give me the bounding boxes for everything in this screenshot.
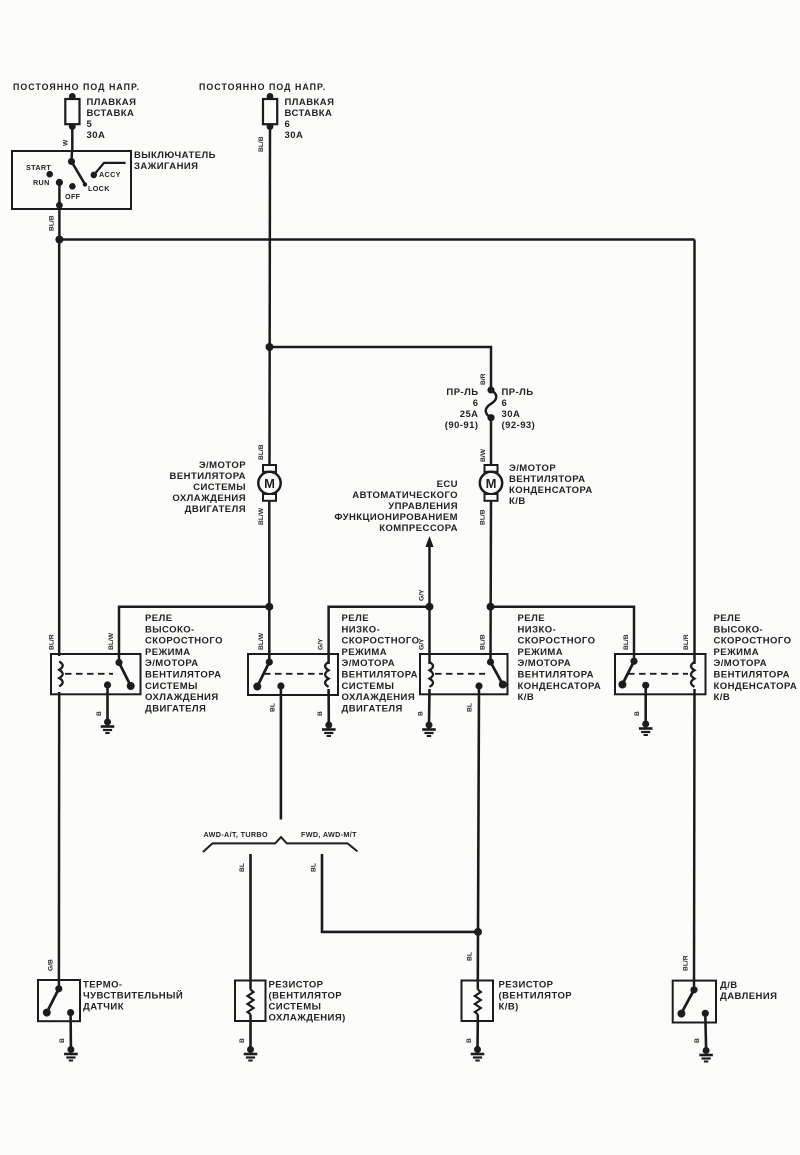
wire label BL/B relay R4: [623, 634, 630, 650]
svg-text:КОНДЕНСАТОРА: КОНДЕНСАТОРА: [509, 485, 593, 496]
relay R2 contact switch: [253, 659, 284, 691]
svg-text:BL/W: BL/W: [108, 632, 115, 650]
svg-text:РЕЖИМА: РЕЖИМА: [342, 647, 388, 658]
svg-text:РЕЖИМА: РЕЖИМА: [145, 647, 191, 658]
svg-text:ДАТЧИК: ДАТЧИК: [83, 1002, 124, 1013]
wire B: relay R3 coil to ground: [428, 689, 431, 724]
fusible link ПР-ЛЬ (squiggle): [486, 386, 497, 421]
svg-text:РЕЗИСТОР: РЕЗИСТОР: [499, 980, 554, 991]
relay R3 coil: [430, 662, 434, 687]
relay R1 coil: [59, 662, 62, 687]
label relay R3: [518, 613, 602, 703]
label fusible link right (92-93): [502, 387, 536, 431]
svg-text:ДВИГАТЕЛЯ: ДВИГАТЕЛЯ: [185, 504, 246, 515]
wire label B/R: [480, 373, 487, 385]
wire B: relay R2 coil to ground: [327, 689, 330, 724]
svg-text:BL/B: BL/B: [258, 444, 265, 460]
svg-text:BL: BL: [270, 703, 277, 712]
svg-text:ВСТАВКА: ВСТАВКА: [285, 108, 333, 119]
svg-text:К/В: К/В: [714, 692, 731, 703]
svg-text:30A: 30A: [87, 130, 106, 141]
svg-text:ПЛАВКАЯ: ПЛАВКАЯ: [87, 97, 137, 108]
svg-text:BL/R: BL/R: [683, 634, 690, 650]
label ECU: [334, 479, 458, 534]
svg-text:W: W: [63, 139, 70, 146]
relay R3 box (condenser fan low-speed relay): [420, 654, 508, 694]
svg-text:ЗАЖИГАНИЯ: ЗАЖИГАНИЯ: [134, 161, 198, 172]
wire B: resistor 1 to ground: [249, 1021, 252, 1048]
wire label B thermo: [59, 1038, 66, 1043]
svg-text:5: 5: [87, 119, 93, 130]
wire: branch to condenser fusible link: [270, 347, 492, 390]
label resistor 2: [499, 980, 573, 1013]
svg-text:ВЫСОКО-: ВЫСОКО-: [714, 624, 764, 635]
svg-text:G/Y: G/Y: [318, 638, 325, 650]
svg-text:РЕЗИСТОР: РЕЗИСТОР: [269, 980, 324, 991]
wire label B relay R4: [634, 711, 641, 716]
svg-text:Э/МОТОРА: Э/МОТОРА: [342, 658, 396, 669]
wire: left bus BL/R down to relay R1 coil: [58, 240, 61, 657]
svg-text:ОХЛАЖДЕНИЯ): ОХЛАЖДЕНИЯ): [269, 1013, 346, 1024]
wire label B relay R2: [317, 711, 324, 716]
wire label BL/R pressure switch: [683, 955, 690, 971]
svg-text:ВЫКЛЮЧАТЕЛЬ: ВЫКЛЮЧАТЕЛЬ: [134, 150, 216, 161]
svg-text:BL/B: BL/B: [258, 136, 265, 152]
svg-text:25A: 25A: [460, 409, 479, 420]
label ignition switch: [134, 150, 216, 172]
svg-text:РЕЛЕ: РЕЛЕ: [518, 613, 545, 624]
svg-text:ВЫСОКО-: ВЫСОКО-: [145, 624, 195, 635]
svg-text:6: 6: [502, 398, 508, 409]
wire: top horizontal bus: [59, 238, 694, 241]
ECU arrow (G/Y control): [425, 536, 433, 604]
wire: G/Y down to relay R3 coil: [428, 607, 431, 664]
label thermo sensor: [83, 980, 183, 1013]
resistor 1 box (engine cooling fan resistor): [235, 981, 266, 1022]
wire B: pressure switch to ground: [704, 1013, 707, 1049]
wire BL: relay R3 output down to junction: [478, 686, 479, 932]
svg-text:ВСТАВКА: ВСТАВКА: [87, 108, 135, 119]
svg-text:РЕЖИМА: РЕЖИМА: [714, 647, 760, 658]
svg-text:30A: 30A: [285, 130, 304, 141]
svg-text:LOCK: LOCK: [88, 184, 110, 193]
ground: relay R1: [101, 719, 115, 734]
svg-text:ДВИГАТЕЛЯ: ДВИГАТЕЛЯ: [145, 703, 206, 714]
svg-text:Д/В: Д/В: [720, 980, 738, 991]
svg-text:К/В: К/В: [518, 692, 535, 703]
label motor M1: [170, 460, 247, 515]
svg-text:B: B: [466, 1038, 473, 1043]
thermo-sensitive sensor box: [38, 980, 80, 1021]
svg-text:BL: BL: [467, 703, 474, 712]
wire BL/B: motor M2 down: [489, 501, 492, 663]
svg-text:ТЕРМО-: ТЕРМО-: [83, 980, 123, 991]
wire label B relay R3: [418, 711, 425, 716]
svg-text:(ВЕНТИЛЯТОР: (ВЕНТИЛЯТОР: [499, 991, 573, 1002]
svg-text:РЕЛЕ: РЕЛЕ: [714, 613, 741, 624]
svg-text:СИСТЕМЫ: СИСТЕМЫ: [145, 681, 198, 692]
label fusible link left (90-91): [445, 387, 479, 431]
ground: relay R2: [322, 722, 336, 737]
svg-text:(92-93): (92-93): [502, 420, 536, 431]
svg-text:M: M: [486, 476, 497, 491]
svg-text:BL/B: BL/B: [49, 215, 56, 231]
svg-text:ОХЛАЖДЕНИЯ: ОХЛАЖДЕНИЯ: [172, 493, 246, 504]
svg-text:ФУНКЦИОНИРОВАНИЕМ: ФУНКЦИОНИРОВАНИЕМ: [334, 512, 458, 523]
svg-text:Э/МОТОРА: Э/МОТОРА: [518, 658, 572, 669]
svg-text:G/Y: G/Y: [419, 589, 426, 601]
svg-text:B: B: [96, 711, 103, 716]
svg-text:ПОСТОЯННО ПОД НАПР.: ПОСТОЯННО ПОД НАПР.: [199, 82, 326, 92]
wire label BL/R right bus: [683, 634, 690, 650]
wire label BL/W below M1: [258, 507, 265, 525]
svg-text:К/В): К/В): [499, 1002, 519, 1013]
svg-text:НИЗКО-: НИЗКО-: [518, 624, 557, 635]
svg-text:РЕЛЕ: РЕЛЕ: [145, 613, 172, 624]
wire label BL/B above M1: [258, 444, 265, 460]
svg-text:AWD-A/T, TURBO: AWD-A/T, TURBO: [204, 830, 268, 839]
svg-text:ВЕНТИЛЯТОРА: ВЕНТИЛЯТОРА: [145, 670, 221, 681]
label FWD, AWD-M/T: [301, 830, 357, 839]
svg-text:РЕЛЕ: РЕЛЕ: [342, 613, 369, 624]
svg-text:BL/R: BL/R: [49, 634, 56, 650]
ground: resistor 2: [471, 1046, 485, 1061]
relay R4 dashed link: [628, 673, 688, 675]
wire: left bus G/B relay R1 coil down to thermo sensor: [58, 692, 61, 990]
label: constant power 1: [13, 82, 140, 92]
option brace (AWD/FWD split): [203, 837, 358, 852]
svg-text:30A: 30A: [502, 409, 521, 420]
ignition switch box (ВЫКЛЮЧАТЕЛЬ ЗАЖИГАНИЯ): [12, 151, 131, 209]
relay R3 dashed link: [435, 673, 485, 675]
svg-text:BL/W: BL/W: [258, 632, 265, 650]
svg-text:НИЗКО-: НИЗКО-: [342, 624, 381, 635]
wire label G/Y above junction: [419, 589, 426, 601]
svg-text:СКОРОСТНОГО: СКОРОСТНОГО: [342, 636, 420, 647]
ground: relay R4: [639, 721, 653, 736]
wire label BL/B below M2: [480, 509, 487, 525]
wire W: fuse F5 to ignition switch: [71, 127, 74, 152]
wire label BL above resistor 2: [467, 952, 474, 961]
wire BL: AWD branch down to resistor: [249, 854, 252, 981]
wire label G/B: [48, 959, 55, 971]
svg-text:BL: BL: [311, 863, 318, 872]
label fuse F6 value: [285, 97, 335, 141]
node: branch junction to fusible links: [266, 343, 274, 351]
wire B: relay R1 contact to ground: [106, 685, 109, 721]
wire: BL/W link to relay R1 contact: [119, 607, 269, 663]
wire B: relay R4 contact to ground: [644, 685, 647, 723]
wire label BL/W relay R1: [108, 632, 115, 650]
svg-text:6: 6: [473, 398, 479, 409]
label relay R4: [714, 613, 798, 703]
node: BL junction at resistor 2: [474, 928, 482, 936]
svg-text:BL/R: BL/R: [683, 955, 690, 971]
ground: relay R3: [422, 722, 436, 737]
svg-text:(ВЕНТИЛЯТОР: (ВЕНТИЛЯТОР: [269, 991, 343, 1002]
wire B: resistor 2 to ground: [476, 1021, 479, 1048]
relay R4 coil: [691, 662, 695, 687]
svg-text:СКОРОСТНОГО: СКОРОСТНОГО: [714, 636, 792, 647]
svg-text:ВЕНТИЛЯТОРА: ВЕНТИЛЯТОРА: [518, 670, 594, 681]
resistor 2 box (condenser fan resistor): [462, 981, 494, 1022]
svg-text:Э/МОТОРА: Э/МОТОРА: [714, 658, 768, 669]
wire BL: FWD branch down and right: [322, 854, 478, 932]
label AWD-A/T, TURBO: [204, 830, 268, 839]
svg-text:ACCY: ACCY: [99, 170, 121, 179]
wire label BL FWD branch: [311, 863, 318, 872]
wire BL/R: right bus down to relay R4 coil: [693, 240, 696, 665]
svg-text:СИСТЕМЫ: СИСТЕМЫ: [193, 482, 246, 493]
svg-text:B/W: B/W: [480, 448, 487, 462]
svg-text:Э/МОТОР: Э/МОТОР: [199, 460, 246, 471]
label resistor 1: [269, 980, 346, 1024]
wire BL/W: motor M1 down to relay R2 contact: [268, 501, 271, 663]
fuse F5 (fusible link 5 30A): [65, 93, 79, 130]
svg-text:ОХЛАЖДЕНИЯ: ОХЛАЖДЕНИЯ: [145, 692, 219, 703]
svg-text:КОНДЕНСАТОРА: КОНДЕНСАТОРА: [714, 681, 798, 692]
node: top bus junction: [55, 236, 63, 244]
label motor M2: [509, 463, 593, 507]
label relay R1: [145, 613, 223, 714]
svg-text:РЕЖИМА: РЕЖИМА: [518, 647, 564, 658]
svg-text:M: M: [264, 476, 275, 491]
svg-text:ECU: ECU: [437, 479, 458, 490]
svg-text:Э/МОТОР: Э/МОТОР: [509, 463, 556, 474]
svg-text:Э/МОТОРА: Э/МОТОРА: [145, 658, 199, 669]
motor M2 (condenser fan motor): [480, 465, 502, 501]
relay R4 contact switch: [618, 658, 649, 689]
fuse F6 (fusible link 6 30A): [263, 93, 277, 130]
wire BL/B: fuse F6 down to motor M1: [268, 127, 271, 466]
relay R2 dashed link: [264, 673, 323, 675]
svg-text:BL/B: BL/B: [480, 634, 487, 650]
relay R3 contact switch: [475, 658, 506, 689]
label relay R2: [342, 613, 420, 714]
svg-text:ДАВЛЕНИЯ: ДАВЛЕНИЯ: [720, 991, 777, 1002]
wire BL/R: relay R4 coil down to pressure switch: [693, 689, 696, 990]
svg-text:6: 6: [285, 119, 291, 130]
svg-text:B: B: [694, 1038, 701, 1043]
wire: BL/B link to relay R4 contact: [491, 607, 635, 662]
svg-text:СКОРОСТНОГО: СКОРОСТНОГО: [518, 636, 596, 647]
wire label BL below relay R2: [270, 703, 277, 712]
motor M1 (engine cooling fan motor): [258, 465, 280, 501]
svg-text:К/В: К/В: [509, 496, 526, 507]
svg-text:OFF: OFF: [65, 192, 81, 201]
wire label B resistor 2: [466, 1038, 473, 1043]
wire label B/W: [480, 448, 487, 462]
ignition switch position labels: [26, 163, 121, 201]
relay R1 dashed link: [65, 673, 113, 675]
relay R4 box (condenser fan high-speed relay): [615, 654, 706, 694]
node: BL/B junction: [487, 603, 495, 611]
svg-text:АВТОМАТИЧЕСКОГО: АВТОМАТИЧЕСКОГО: [352, 490, 458, 501]
ground: thermo sensor: [64, 1046, 78, 1061]
svg-text:СИСТЕМЫ: СИСТЕМЫ: [269, 1002, 322, 1013]
svg-text:КОМПРЕССОРА: КОМПРЕССОРА: [379, 523, 458, 534]
wire: G/Y link to relay R2 coil: [329, 607, 430, 664]
svg-text:ВЕНТИЛЯТОРА: ВЕНТИЛЯТОРА: [714, 670, 790, 681]
wire label BL/B: [49, 215, 56, 231]
svg-text:СКОРОСТНОГО: СКОРОСТНОГО: [145, 636, 223, 647]
svg-text:RUN: RUN: [33, 178, 50, 187]
svg-text:G/B: G/B: [48, 959, 55, 971]
svg-text:ПР-ЛЬ: ПР-ЛЬ: [502, 387, 534, 398]
wire BL: relay R2 output down to option brace: [280, 686, 283, 820]
wire label BL/B relay R3: [480, 634, 487, 650]
node: BL/W junction: [265, 603, 273, 611]
svg-text:(90-91): (90-91): [445, 420, 479, 431]
relay R2 coil: [325, 662, 329, 687]
wire B/W: fusible link to condenser motor M2: [490, 418, 493, 466]
svg-text:B: B: [418, 711, 425, 716]
svg-text:УПРАВЛЕНИЯ: УПРАВЛЕНИЯ: [388, 501, 458, 512]
relay R1 contact switch: [104, 659, 135, 690]
svg-text:КОНДЕНСАТОРА: КОНДЕНСАТОРА: [518, 681, 602, 692]
wire label BL AWD branch: [239, 863, 246, 872]
svg-text:ВЕНТИЛЯТОРА: ВЕНТИЛЯТОРА: [509, 474, 585, 485]
svg-text:ПЛАВКАЯ: ПЛАВКАЯ: [285, 97, 335, 108]
wire B: thermo sensor to ground: [69, 1013, 72, 1048]
svg-text:B: B: [59, 1038, 66, 1043]
pressure switch box (Д/В ДАВЛЕНИЯ): [673, 981, 716, 1023]
node: G/Y junction: [426, 603, 434, 611]
svg-text:ПР-ЛЬ: ПР-ЛЬ: [446, 387, 478, 398]
svg-text:B: B: [239, 1038, 246, 1043]
svg-text:BL: BL: [239, 863, 246, 872]
wire label BL/R: [49, 634, 56, 650]
relay R1 box (engine fan high-speed relay): [51, 654, 141, 694]
svg-text:ОХЛАЖДЕНИЯ: ОХЛАЖДЕНИЯ: [342, 692, 416, 703]
svg-text:B/R: B/R: [480, 373, 487, 385]
wire label G/Y relay R3 coil: [419, 638, 426, 650]
svg-text:B: B: [317, 711, 324, 716]
wire label B pressure switch: [694, 1038, 701, 1043]
wire label BL below relay R3: [467, 703, 474, 712]
ground: resistor 1: [244, 1046, 258, 1061]
svg-text:BL/B: BL/B: [480, 509, 487, 525]
svg-text:ПОСТОЯННО ПОД НАПР.: ПОСТОЯННО ПОД НАПР.: [13, 82, 140, 92]
svg-text:ЧУВСТВИТЕЛЬНЫЙ: ЧУВСТВИТЕЛЬНЫЙ: [83, 990, 183, 1002]
svg-text:B: B: [634, 711, 641, 716]
wire BL: junction down to resistor 2: [476, 932, 479, 981]
relay R2 box (engine fan low-speed relay): [248, 654, 338, 695]
wire BL/B: ignition RUN to top bus: [58, 209, 61, 240]
svg-text:BL: BL: [467, 952, 474, 961]
wire label B relay R1: [96, 711, 103, 716]
svg-text:START: START: [26, 163, 51, 172]
svg-text:СИСТЕМЫ: СИСТЕМЫ: [342, 681, 395, 692]
svg-text:FWD, AWD-M/T: FWD, AWD-M/T: [301, 830, 357, 839]
svg-text:ВЕНТИЛЯТОРА: ВЕНТИЛЯТОРА: [170, 471, 246, 482]
svg-text:G/Y: G/Y: [419, 638, 426, 650]
wire label G/Y relay R2 coil: [318, 638, 325, 650]
svg-text:ВЕНТИЛЯТОРА: ВЕНТИЛЯТОРА: [342, 670, 418, 681]
ground: pressure switch: [699, 1047, 713, 1062]
wire label BL/B fuse 6: [258, 136, 265, 152]
label pressure switch: [720, 980, 777, 1002]
wire label W: [63, 139, 70, 146]
label: constant power 2: [199, 82, 326, 92]
svg-text:ДВИГАТЕЛЯ: ДВИГАТЕЛЯ: [342, 703, 403, 714]
svg-text:BL/B: BL/B: [623, 634, 630, 650]
wire label B resistor 1: [239, 1038, 246, 1043]
wire label BL/W relay R2: [258, 632, 265, 650]
label fuse F5 value: [87, 97, 137, 141]
svg-text:BL/W: BL/W: [258, 507, 265, 525]
